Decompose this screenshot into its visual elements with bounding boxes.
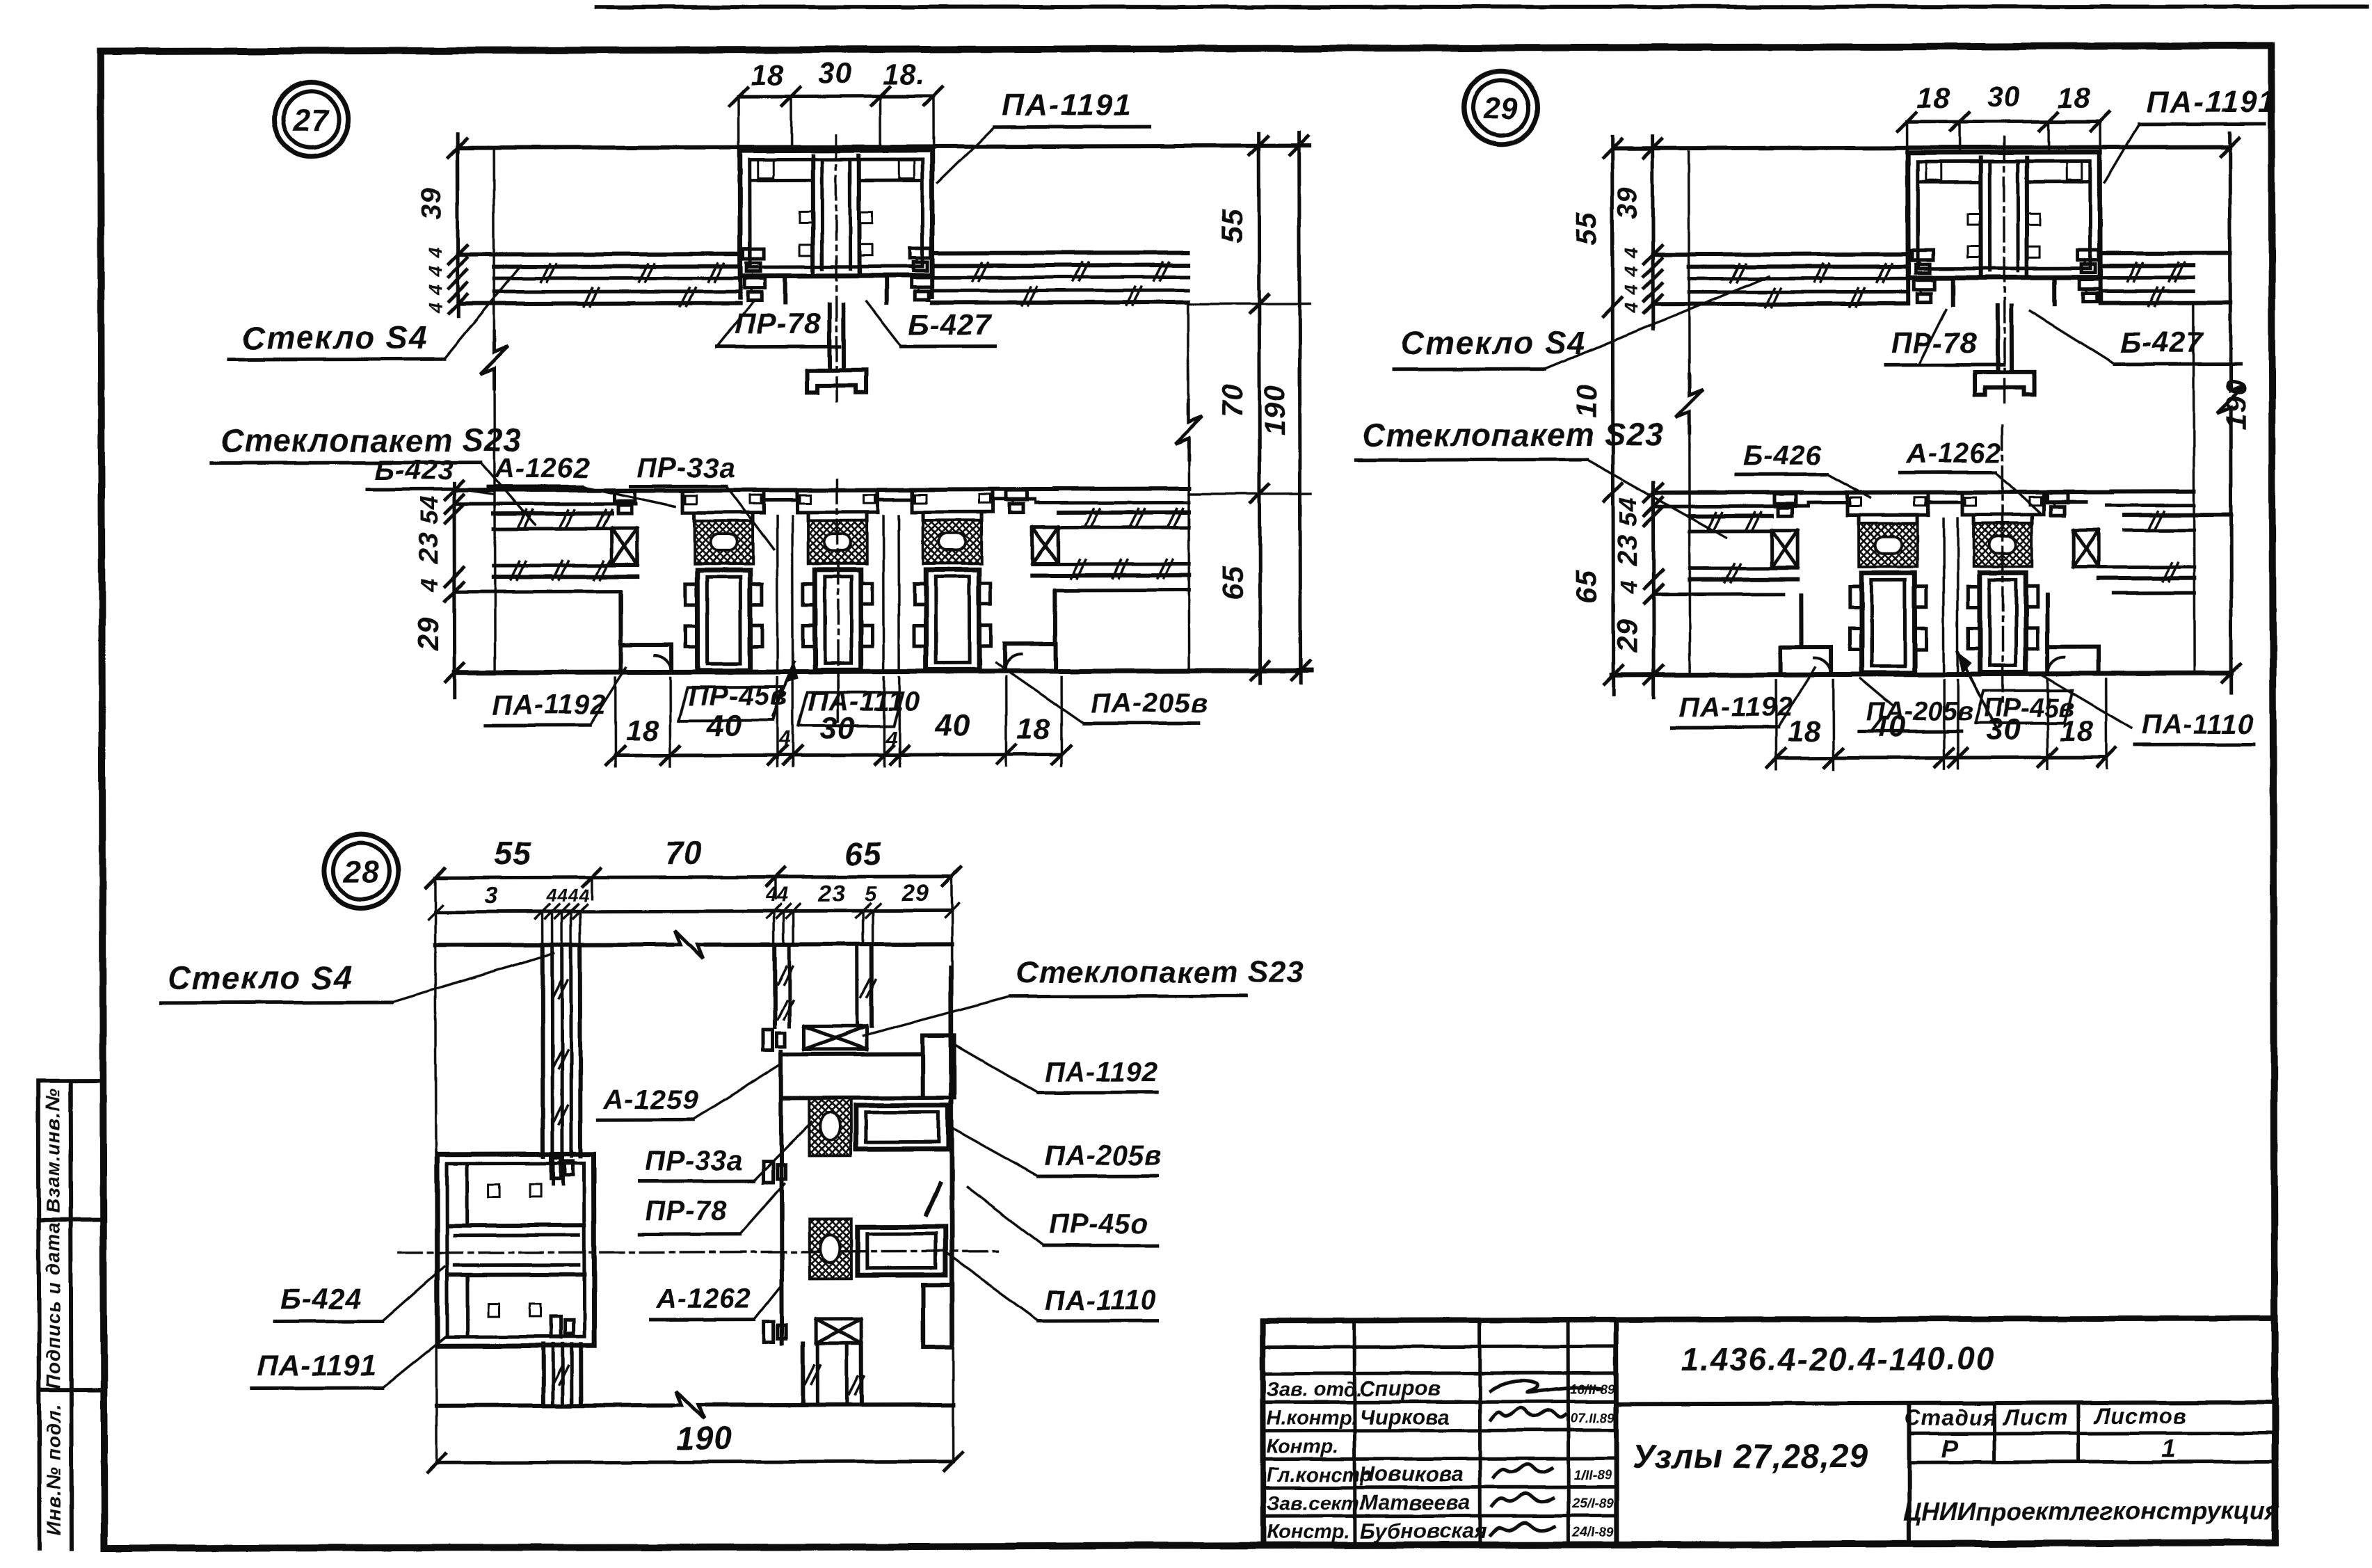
svg-text:Зав.сект.: Зав.сект. xyxy=(1267,1492,1365,1514)
detail 28 horizontal profile B-424 box xyxy=(437,1154,594,1346)
detail 29 left extension line with break xyxy=(1688,152,1690,374)
detail 29 cover profile B-426 line xyxy=(1801,493,2112,493)
svg-text:28: 28 xyxy=(343,855,379,889)
detail 28 unit A frame xyxy=(781,1054,922,1098)
detail 27 left dimension chain upper xyxy=(456,134,460,317)
svg-text:1.436.4-20.4-140.00: 1.436.4-20.4-140.00 xyxy=(1681,1341,1995,1377)
svg-text:18: 18 xyxy=(625,714,659,746)
detail 28 B-424 clips xyxy=(550,1158,560,1178)
svg-text:54: 54 xyxy=(1614,497,1642,526)
detail 29 right foot xyxy=(2045,595,2049,647)
svg-text:4 4 4 4: 4 4 4 4 xyxy=(425,246,446,314)
svg-text:4: 4 xyxy=(885,727,898,750)
svg-text:1/II-89: 1/II-89 xyxy=(1574,1468,1612,1482)
svg-text:ПА-1191: ПА-1191 xyxy=(257,1349,377,1382)
svg-text:Инв.№ подл.: Инв.№ подл. xyxy=(42,1404,64,1535)
detail 27 bottom dimension line 18 40 4 30 4 40 18 xyxy=(616,754,1061,755)
detail 27 top edge line xyxy=(458,146,1310,148)
svg-text:30: 30 xyxy=(819,56,853,89)
detail 27 PA-205v foot xyxy=(1052,591,1057,643)
detail 29 lower left glass unit band xyxy=(1653,490,1801,495)
window profile unit at 1370 xyxy=(910,490,913,512)
detail 29 right dimension chain 190 xyxy=(2228,133,2232,373)
detail 27 right extension horizontals xyxy=(1188,303,1310,305)
svg-text:54: 54 xyxy=(415,495,443,525)
detail 29 top dimension line 18 30 18 xyxy=(1907,120,2101,124)
detail 27 upper glass band left xyxy=(458,254,740,255)
svg-text:Стадия: Стадия xyxy=(1905,1405,1998,1430)
detail 28 vertical glass Стекло S4 upper run xyxy=(540,945,545,1156)
detail 29 mullion sill xyxy=(1906,278,1910,299)
scan artifact line top edge xyxy=(596,3,2366,12)
svg-text:190: 190 xyxy=(2220,378,2252,429)
detail 27 mullion inner hooks xyxy=(800,211,812,223)
window profile unit at 2880 xyxy=(1960,493,1964,515)
detail 29 cover plate second line xyxy=(1808,501,1848,504)
svg-text:55: 55 xyxy=(495,835,532,871)
svg-text:ПА-1110: ПА-1110 xyxy=(808,686,920,717)
detail 28 top dimension line 55 70 65 xyxy=(435,877,952,878)
svg-text:Лист: Лист xyxy=(2003,1405,2068,1430)
svg-text:Б-424: Б-424 xyxy=(280,1282,362,1315)
svg-text:10: 10 xyxy=(1571,384,1603,418)
svg-text:ПА-1192: ПА-1192 xyxy=(492,689,607,720)
detail 27 right extension line with break xyxy=(1187,304,1190,403)
svg-text:07.II.89: 07.II.89 xyxy=(1571,1411,1615,1425)
detail 29 mullion profile B-427 xyxy=(1908,152,2100,278)
svg-text:Взам.инв.№: Взам.инв.№ xyxy=(42,1089,63,1213)
svg-text:39: 39 xyxy=(417,188,447,221)
svg-text:ПР-45в: ПР-45в xyxy=(1984,694,2075,723)
detail 28 B-424 shelf verticals xyxy=(465,1165,469,1226)
svg-text:5: 5 xyxy=(865,883,877,906)
svg-text:65: 65 xyxy=(1569,570,1602,604)
svg-text:4444: 4444 xyxy=(546,885,590,906)
detail 27 right dimension chain 190 xyxy=(1299,134,1301,683)
svg-text:ПА-1110: ПА-1110 xyxy=(2142,709,2254,739)
svg-text:ПА-205в: ПА-205в xyxy=(1866,697,1973,726)
detail 29 lower right glass unit band xyxy=(2112,489,2194,493)
detail 28 PA-1110 box xyxy=(923,1285,952,1347)
detail 28 vertical glass lower run xyxy=(541,1344,545,1405)
detail 27 PA-1192 foot xyxy=(618,593,623,645)
svg-text:Стекло S4: Стекло S4 xyxy=(168,959,353,996)
detail 29 lower left inner chain 54 23 4 29 xyxy=(1651,482,1656,698)
svg-text:Контр.: Контр. xyxy=(1267,1435,1339,1457)
svg-text:ПА-205в: ПА-205в xyxy=(1044,1140,1162,1171)
svg-text:Бубновская: Бубновская xyxy=(1360,1519,1487,1543)
svg-text:ПА-1110: ПА-1110 xyxy=(1045,1285,1157,1315)
detail 28 lower sealed unit xyxy=(816,1319,861,1343)
svg-text:Зав. отд.: Зав. отд. xyxy=(1266,1378,1362,1400)
detail 29 mullion centerline xyxy=(2004,137,2005,408)
title block outline xyxy=(1263,1318,2275,1321)
detail 29 gap slots between units xyxy=(1942,518,1945,671)
title block signature table rows xyxy=(1263,1346,1616,1347)
detail 27 mullion foot xyxy=(807,370,867,392)
svg-text:ПА-1192: ПА-1192 xyxy=(1044,1057,1158,1087)
detail 28 horizontal centerline xyxy=(399,1251,1003,1253)
svg-text:39: 39 xyxy=(1612,186,1643,219)
svg-text:190: 190 xyxy=(677,1421,732,1457)
detail 29 bottom structural line xyxy=(1612,673,2231,675)
svg-text:Б-427: Б-427 xyxy=(2120,326,2204,358)
svg-text:18.: 18. xyxy=(883,58,926,90)
detail 27 mullion centerline xyxy=(836,135,837,406)
svg-text:1: 1 xyxy=(2161,1434,2176,1462)
svg-text:Н.контр.: Н.контр. xyxy=(1266,1407,1357,1429)
window profile unit at 1041 xyxy=(681,490,684,513)
detail 28 bottom edge line with break xyxy=(436,1403,673,1408)
detail 27 top dimension line 18 30 18 xyxy=(738,94,933,98)
svg-text:29: 29 xyxy=(411,616,444,651)
svg-text:ПР-45в: ПР-45в xyxy=(689,680,789,711)
svg-text:4: 4 xyxy=(778,727,792,750)
detail 27 lower right glass unit band xyxy=(1055,486,1189,491)
svg-text:А-1259: А-1259 xyxy=(602,1085,698,1115)
svg-text:29: 29 xyxy=(901,880,929,906)
detail 29 bottom dimension line 18 40 30 18 xyxy=(1776,758,2106,758)
svg-text:3: 3 xyxy=(484,883,498,909)
svg-text:ПР-45о: ПР-45о xyxy=(1049,1208,1149,1239)
svg-text:40: 40 xyxy=(705,709,742,743)
window profile unit at 1205 xyxy=(795,490,799,512)
detail 29 left inner dimension chain 39 4444 xyxy=(1651,136,1655,329)
svg-text:ПР-78: ПР-78 xyxy=(646,1196,728,1226)
svg-text:А-1262: А-1262 xyxy=(655,1283,751,1314)
svg-text:А-1262: А-1262 xyxy=(494,453,590,483)
detail 27 glazing clips PR-78 xyxy=(743,249,764,259)
svg-text:18: 18 xyxy=(751,58,785,90)
detail 27 mullion stem xyxy=(827,304,831,370)
detail 28 right assembly upper sealed unit xyxy=(773,945,777,1027)
detail 28 top edge line with break xyxy=(435,943,673,947)
svg-text:23: 23 xyxy=(818,880,847,906)
svg-text:24/I-89: 24/I-89 xyxy=(1571,1525,1614,1539)
svg-text:18: 18 xyxy=(2057,81,2091,114)
detail 28 bubble xyxy=(324,834,398,908)
detail 28 unit B frame xyxy=(810,1219,851,1279)
detail 27 cover plate second line xyxy=(764,498,797,502)
detail 27 gap slots between units xyxy=(776,516,778,669)
svg-text:ПА-1191: ПА-1191 xyxy=(2146,85,2276,119)
svg-text:Б-427: Б-427 xyxy=(908,308,992,341)
svg-text:23: 23 xyxy=(413,532,444,566)
detail 28 right assembly left wall xyxy=(781,1052,782,1344)
svg-text:Стеклопакет S23: Стеклопакет S23 xyxy=(1016,955,1305,990)
svg-text:ПА-205в: ПА-205в xyxy=(1091,688,1208,719)
svg-text:Узлы 27,28,29: Узлы 27,28,29 xyxy=(1633,1438,1868,1475)
svg-text:ПР-33а: ПР-33а xyxy=(645,1146,744,1176)
svg-text:65: 65 xyxy=(845,835,883,872)
detail 28 bottom dimension line 190 xyxy=(437,1462,954,1463)
detail 27 unit2 centerline xyxy=(836,479,839,703)
svg-text:Стекло S4: Стекло S4 xyxy=(1401,324,1587,361)
svg-text:Листов: Листов xyxy=(2093,1403,2186,1428)
detail 27 bubble xyxy=(274,82,348,156)
svg-text:Стеклопакет S23: Стеклопакет S23 xyxy=(1363,416,1664,453)
svg-text:18: 18 xyxy=(1916,81,1950,114)
svg-text:Новикова: Новикова xyxy=(1360,1462,1464,1486)
svg-text:25/I-89: 25/I-89 xyxy=(1571,1496,1614,1511)
svg-text:4: 4 xyxy=(417,578,443,593)
svg-text:Гл.констр: Гл.констр xyxy=(1267,1464,1372,1486)
detail 27 bottom structural line xyxy=(455,671,1311,673)
svg-text:65: 65 xyxy=(1216,566,1249,600)
svg-text:18: 18 xyxy=(1016,712,1050,745)
svg-text:ПР-78: ПР-78 xyxy=(1891,326,1977,359)
svg-text:А-1262: А-1262 xyxy=(1906,438,2002,469)
svg-text:29: 29 xyxy=(1610,618,1643,653)
detail 29 band edge extension right xyxy=(2193,305,2194,673)
svg-text:16/II-89: 16/II-89 xyxy=(1570,1382,1615,1397)
signature squiggles xyxy=(1490,1381,1601,1393)
detail 28 B-424 inner hooks xyxy=(488,1185,499,1197)
svg-text:Подпись и дата: Подпись и дата xyxy=(42,1222,65,1389)
svg-text:190: 190 xyxy=(1258,385,1291,435)
detail 27 cover profile B-423 line xyxy=(614,489,1057,490)
detail 27 upper glass band right xyxy=(932,250,1188,255)
svg-text:Стекло S4: Стекло S4 xyxy=(242,319,428,356)
svg-text:ПР-78: ПР-78 xyxy=(735,307,821,339)
detail 28 right assembly right wall xyxy=(951,968,952,1347)
svg-text:Стеклопакет S23: Стеклопакет S23 xyxy=(221,422,522,458)
detail 27 mullion sill xyxy=(738,276,742,298)
svg-text:27: 27 xyxy=(293,103,330,137)
left stamp table xyxy=(38,1081,40,1549)
detail 28 PA-1192 box xyxy=(922,1036,954,1098)
window profile unit at 2715 xyxy=(1845,493,1849,515)
svg-text:Чиркова: Чиркова xyxy=(1359,1405,1450,1429)
detail 27 mullion profile B-427 xyxy=(740,150,932,276)
title block stage columns xyxy=(1907,1403,1912,1544)
svg-text:ПР-33а: ПР-33а xyxy=(637,453,736,483)
svg-text:40: 40 xyxy=(934,708,970,742)
svg-text:30: 30 xyxy=(1987,80,2021,113)
detail 27 lower left dimension chain 54 23 4 29 xyxy=(452,483,456,698)
detail 29 mullion inner hooks xyxy=(1968,214,1980,225)
svg-text:Матвеева: Матвеева xyxy=(1360,1490,1471,1514)
svg-text:23: 23 xyxy=(1612,534,1643,567)
detail 29 PA-1192 foot xyxy=(1799,595,1803,648)
title block signature table columns xyxy=(1353,1320,1357,1545)
svg-text:ПА-1192: ПА-1192 xyxy=(1679,692,1793,723)
detail 27 left extension line with break xyxy=(492,150,495,329)
svg-text:ЦНИИпроектлегконструкция: ЦНИИпроектлегконструкция xyxy=(1903,1496,2279,1526)
detail 29 mullion foot xyxy=(1975,372,2035,394)
detail 29 mullion stem xyxy=(1995,306,1999,372)
svg-text:Спиров: Спиров xyxy=(1359,1376,1441,1400)
detail 29 upper glass band right xyxy=(2100,251,2230,255)
title block doc number cell bottom xyxy=(1616,1402,2275,1404)
detail 29 unit2 centerline xyxy=(2003,426,2003,704)
svg-text:Р: Р xyxy=(1941,1434,1958,1463)
detail 29 bubble xyxy=(1464,71,1537,145)
svg-text:55: 55 xyxy=(1215,209,1248,243)
svg-text:55: 55 xyxy=(1570,211,1603,246)
detail 27 lower left glass unit band xyxy=(454,488,614,493)
svg-text:29: 29 xyxy=(1482,92,1518,126)
svg-text:Констр.: Констр. xyxy=(1267,1521,1350,1543)
detail 29 top edge line xyxy=(1614,147,2230,148)
svg-text:70: 70 xyxy=(1216,383,1249,417)
svg-text:Б-423: Б-423 xyxy=(375,455,454,486)
detail 29 left outer dimension chain 55 10 65 xyxy=(1612,136,1614,694)
svg-text:70: 70 xyxy=(665,835,702,871)
svg-text:ПА-1191: ПА-1191 xyxy=(1002,88,1132,122)
detail 29 upper glass band left xyxy=(1653,252,1908,257)
svg-text:4: 4 xyxy=(1616,579,1642,594)
detail 29 glazing clips xyxy=(1912,250,1933,260)
detail 28 second dimension line 3 4444 44 23 5 29 xyxy=(435,911,952,912)
svg-text:Б-426: Б-426 xyxy=(1743,440,1822,471)
detail 27 right dimension chain 55 70 65 xyxy=(1259,134,1260,683)
svg-text:4 4 4 4: 4 4 4 4 xyxy=(1621,246,1642,314)
